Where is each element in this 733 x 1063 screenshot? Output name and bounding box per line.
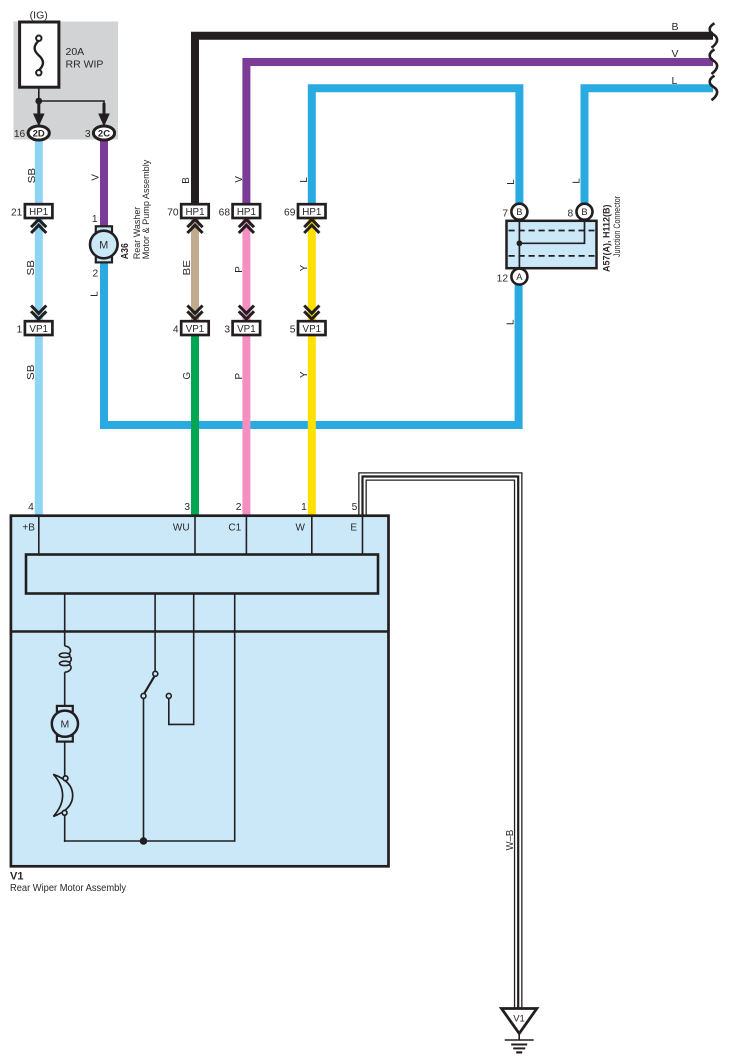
connector VP1 pin 3 [233,306,261,336]
svg-text:VP1: VP1 [303,324,322,335]
svg-text:3: 3 [85,129,91,140]
wire L from washer motor pin 2 to junction connector pin 12 [104,262,519,425]
wire L from junction connector pin 8 to harness break [585,88,714,204]
internal divider line [11,630,389,633]
junction dot on bottom rail [140,837,148,845]
cam plate crescent [53,774,72,816]
svg-text:WU: WU [173,523,190,534]
pin lead C1 [245,516,247,555]
svg-text:Y: Y [299,264,310,271]
bottom rail wire [64,840,235,842]
svg-text:L: L [672,75,678,87]
svg-text:L: L [506,179,517,185]
junction dot branch node [35,98,42,105]
svg-text:2D: 2D [33,129,45,140]
wire cam plate to bottom rail [64,815,66,842]
internal lead to coil [64,594,66,647]
switch pivot contact [153,671,158,676]
svg-text:Motor & Pump Assembly: Motor & Pump Assembly [141,159,152,259]
junction internal wire pin7 to pin12 [518,221,520,268]
connector VP1 pin 4 [181,306,209,336]
svg-text:HP1: HP1 [302,207,321,218]
internal connector strip [26,555,378,594]
svg-text:M: M [99,240,108,252]
svg-text:SB: SB [26,364,37,380]
svg-text:1: 1 [17,324,23,335]
svg-text:69: 69 [284,207,296,218]
cam plate contact circle bottom [62,810,67,815]
svg-text:2: 2 [93,268,99,279]
harness break L [710,76,717,101]
washer motor A36 [90,226,118,262]
svg-text:1: 1 [301,502,307,513]
svg-text:68: 68 [219,207,231,218]
svg-text:W: W [296,523,306,534]
svg-text:V: V [672,48,679,60]
connector oval 2C [93,126,114,140]
wire Y from HP1 pin 69 to W pin [308,217,316,516]
wire motor to cam plate [64,742,66,777]
svg-text:20A: 20A [66,46,85,58]
svg-text:G: G [182,372,193,380]
svg-text:70: 70 [167,207,179,218]
svg-text:SB: SB [26,259,37,275]
wire throw 2 to connector strip [169,594,194,725]
svg-text:VP1: VP1 [29,324,48,335]
svg-text:8: 8 [568,209,574,220]
wire throw 1 to bottom rail [143,698,145,841]
wire V from connector 2C to washer motor pin 1 [100,140,108,227]
switch arm [144,676,155,694]
svg-text:5: 5 [352,502,358,513]
connector HP1 pin 21 [25,204,53,233]
svg-text:V: V [234,176,245,183]
svg-text:4: 4 [173,324,179,335]
svg-text:L: L [299,177,310,183]
svg-text:+B: +B [22,523,35,534]
svg-text:B: B [672,21,679,33]
wire branch node to connector 2C [39,101,104,113]
wire BE between HP1 pin 70 and VP1 pin 4 [191,217,199,327]
wire fuse output to branch node [38,87,40,113]
svg-text:SB: SB [27,167,38,183]
coil L1 [59,646,71,672]
pin lead WU [194,516,196,555]
svg-text:B: B [516,207,522,217]
cam plate contact circle top [63,776,68,781]
svg-text:5: 5 [290,324,296,335]
connector HP1 pin 70 [181,204,209,233]
svg-text:Rear Wiper Motor Assembly: Rear Wiper Motor Assembly [10,883,127,894]
harness break B [710,23,717,48]
connector HP1 pin 69 [298,204,326,233]
svg-text:1: 1 [92,214,98,225]
svg-text:BE: BE [182,259,193,275]
svg-text:E: E [350,523,357,534]
svg-text:VP1: VP1 [186,324,205,335]
junction connector dashed bus 2 [509,255,595,257]
junction connector A57(A) H112(B) [507,221,597,268]
arrow into connector 2D [33,103,45,127]
svg-text:(IG): (IG) [30,9,48,21]
svg-text:W–B: W–B [505,829,516,850]
wire C1 branch to bottom rail [234,594,236,842]
svg-text:21: 21 [11,207,23,218]
svg-text:P: P [234,266,245,273]
wire V from HP1 pin 68 to harness break [246,62,713,205]
wire SB from connector 2D to +B pin [35,140,43,517]
wire B from HP1 pin 70 to harness break [195,36,713,205]
svg-text:2C: 2C [98,129,110,140]
pin lead E [362,516,364,555]
svg-text:A: A [516,272,523,282]
svg-text:V1: V1 [10,871,23,883]
svg-text:VP1: VP1 [237,324,256,335]
wire P from HP1 pin 68 to C1 pin [242,217,250,516]
svg-text:Y: Y [299,371,310,378]
svg-text:16: 16 [14,129,26,140]
wire coil to motor M [64,672,66,706]
junction terminal B pin 8 [577,204,593,220]
rear wiper motor assembly box V1 [11,516,389,867]
fuse block background (IG) [14,22,119,140]
svg-text:B: B [581,207,587,217]
svg-text:4: 4 [28,502,34,513]
junction internal node dot [517,240,523,246]
harness break V [710,49,717,74]
ground symbol V1 [502,1009,537,1053]
wire G from VP1 pin 4 to WU pin [191,327,199,516]
internal lead to switch pivot [154,594,156,672]
junction internal wire pin8 to node [521,221,585,244]
svg-text:V: V [90,174,101,181]
svg-text:3: 3 [224,324,230,335]
connector VP1 pin 1 [25,306,53,336]
fuse 20A RR WIP [20,22,59,87]
svg-text:L: L [89,291,100,297]
wire W-B from E pin to ground V1 (white wire, black stripe) [363,477,519,1010]
svg-text:L: L [506,319,517,325]
switch contact throw 1 [141,693,146,698]
pin lead W [311,516,313,555]
svg-text:L: L [571,178,582,184]
svg-text:3: 3 [184,502,190,513]
pin lead +B [38,516,40,555]
svg-text:A36: A36 [120,243,131,259]
connector oval 2D [28,126,49,140]
svg-text:HP1: HP1 [29,207,48,218]
motor M of wiper [52,706,78,742]
svg-text:12: 12 [497,273,509,284]
svg-text:HP1: HP1 [185,207,204,218]
junction terminal B pin 7 [511,204,527,220]
junction connector dashed bus 1 [509,230,595,232]
svg-text:B: B [181,177,192,184]
svg-text:C1: C1 [228,523,241,534]
connector HP1 pin 68 [233,204,261,233]
wire L from HP1 pin 69 to junction connector pin 7 [312,88,520,204]
arrow into connector 2C [98,103,110,127]
switch contact throw 2 [166,693,171,698]
junction terminal A pin 12 [511,269,527,285]
connector VP1 pin 5 [298,306,326,336]
svg-text:V1: V1 [513,1013,525,1024]
svg-text:P: P [234,373,245,380]
svg-text:2: 2 [236,502,242,513]
svg-text:M: M [61,719,70,731]
svg-text:HP1: HP1 [237,207,256,218]
svg-text:RR WIP: RR WIP [66,59,104,71]
svg-text:7: 7 [502,209,508,220]
svg-text:Junction Connector: Junction Connector [612,196,623,257]
